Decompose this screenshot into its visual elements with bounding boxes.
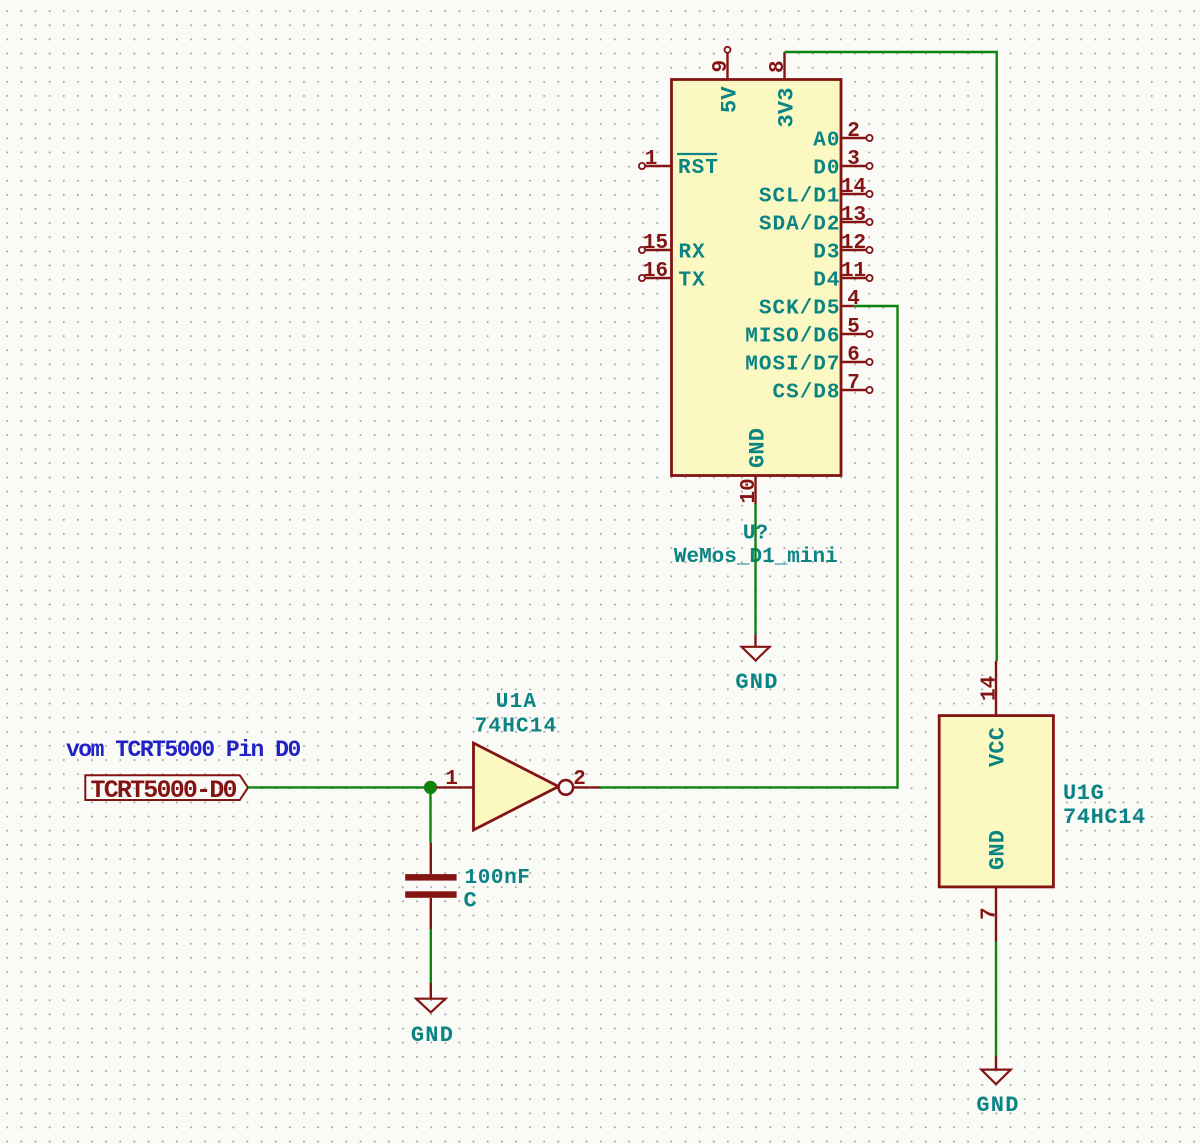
wire pin 7 to GND <box>995 942 997 1057</box>
pin 7 CS/D8 (right) <box>772 372 872 405</box>
svg-text:12: 12 <box>841 232 866 255</box>
pin 1 RST (left) <box>639 148 719 180</box>
wire 3V3 to VCC <box>785 52 997 661</box>
svg-text:VCC: VCC <box>986 727 1011 767</box>
svg-text:A0: A0 <box>813 130 840 153</box>
svg-text:D4: D4 <box>813 270 840 293</box>
pin 9 5V (top) <box>710 47 743 113</box>
svg-text:1: 1 <box>645 148 658 171</box>
svg-text:13: 13 <box>841 204 866 227</box>
svg-text:16: 16 <box>643 260 668 283</box>
svg-text:3: 3 <box>847 148 860 171</box>
svg-text:7: 7 <box>979 907 1002 920</box>
svg-text:4: 4 <box>847 288 860 311</box>
svg-text:CS/D8: CS/D8 <box>772 382 840 405</box>
svg-text:SCK/D5: SCK/D5 <box>759 298 841 321</box>
svg-text:10: 10 <box>738 478 761 503</box>
svg-text:RST: RST <box>678 157 719 180</box>
svg-text:TX: TX <box>679 270 706 293</box>
IC U? WeMos_D1_mini body <box>672 80 842 476</box>
svg-text:6: 6 <box>847 344 860 367</box>
inverter U1A 74HC14 <box>436 691 600 830</box>
svg-text:5: 5 <box>847 316 860 339</box>
svg-text:vom TCRT5000 Pin D0: vom TCRT5000 Pin D0 <box>66 737 300 763</box>
svg-text:GND: GND <box>735 670 778 695</box>
pin 14 SCL/D1 (right) <box>759 176 873 209</box>
pin 6 MOSI/D7 (right) <box>745 344 872 377</box>
ground symbol (U1G) <box>976 1057 1019 1119</box>
pin 15 RX (left) <box>639 232 706 265</box>
svg-text:74HC14: 74HC14 <box>1063 805 1146 830</box>
svg-text:3V3: 3V3 <box>775 87 800 127</box>
pin 12 D3 (right) <box>813 232 872 265</box>
svg-text:GND: GND <box>986 830 1011 870</box>
pin 8 3V3 (top) <box>767 52 800 128</box>
svg-text:MISO/D6: MISO/D6 <box>745 326 840 349</box>
pin 11 D4 (right) <box>813 260 872 293</box>
svg-text:U1A: U1A <box>496 691 537 714</box>
svg-text:9: 9 <box>710 60 733 73</box>
global label TCRT5000-D0 <box>85 775 248 805</box>
svg-text:2: 2 <box>573 768 586 791</box>
pin 2 A0 (right) <box>813 120 872 153</box>
svg-text:11: 11 <box>841 260 866 283</box>
wire SCK/D5 to inverter output <box>600 306 898 787</box>
wire label to junction <box>248 786 431 788</box>
svg-text:TCRT5000-D0: TCRT5000-D0 <box>91 776 237 805</box>
svg-text:8: 8 <box>767 60 790 73</box>
svg-text:D3: D3 <box>813 242 840 265</box>
svg-text:14: 14 <box>841 176 866 199</box>
wire capacitor to GND <box>430 929 432 983</box>
pin 10 GND (bottom) <box>738 428 771 504</box>
pin 4 SCK/D5 (right, connected) <box>759 288 860 321</box>
wire junction down to capacitor <box>429 787 431 843</box>
svg-text:C: C <box>464 889 477 914</box>
pin 13 SDA/D2 (right) <box>759 204 873 237</box>
svg-text:GND: GND <box>746 428 771 468</box>
svg-text:SDA/D2: SDA/D2 <box>759 214 841 237</box>
svg-text:1: 1 <box>445 768 458 791</box>
svg-text:RX: RX <box>679 242 706 265</box>
ground symbol (WeMos) <box>735 635 778 695</box>
svg-text:7: 7 <box>847 372 860 395</box>
wire pin10 to GND <box>754 504 756 635</box>
pin 16 TX (left) <box>639 260 706 293</box>
svg-text:15: 15 <box>643 232 668 255</box>
pin 14 VCC (top) <box>979 661 1011 767</box>
pin 5 MISO/D6 (right) <box>745 316 872 349</box>
svg-text:100nF: 100nF <box>465 867 531 890</box>
capacitor C 100nF <box>405 843 530 929</box>
svg-text:74HC14: 74HC14 <box>475 716 558 739</box>
svg-text:GND: GND <box>976 1093 1019 1118</box>
svg-text:5V: 5V <box>718 86 743 113</box>
ground symbol (capacitor) <box>411 983 454 1048</box>
junction <box>424 781 437 794</box>
pin 3 D0 (right) <box>813 148 872 181</box>
svg-text:SCL/D1: SCL/D1 <box>759 186 841 209</box>
pin 7 GND (bottom) <box>979 830 1011 942</box>
svg-text:D0: D0 <box>813 158 840 181</box>
svg-text:14: 14 <box>979 676 1002 701</box>
svg-text:GND: GND <box>411 1023 454 1048</box>
svg-text:MOSI/D7: MOSI/D7 <box>745 354 840 377</box>
IC U1G 74HC14 power unit body <box>939 716 1053 887</box>
svg-text:2: 2 <box>847 120 860 143</box>
svg-text:U1G: U1G <box>1063 781 1104 806</box>
